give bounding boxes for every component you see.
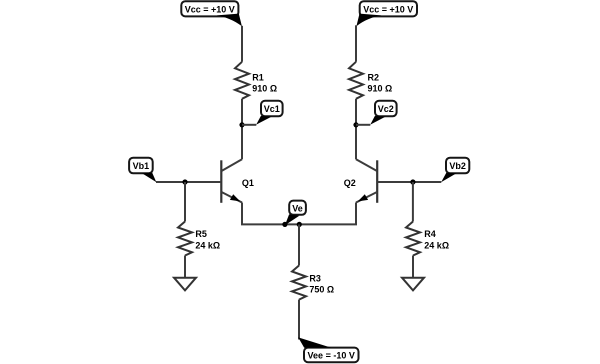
wire Vc1 stub [242, 124, 256, 126]
svg-text:Vb1: Vb1 [133, 161, 150, 171]
label R1 910 Ω [252, 72, 277, 93]
label R2 910 Ω [368, 72, 393, 93]
label R3 750 Ω [309, 273, 334, 294]
power label Vcc left (+10 V) [181, 1, 242, 26]
wire Vb1 node to R5 [184, 182, 186, 222]
wire R4 to ground [412, 256, 414, 278]
svg-text:Vcc = +10 V: Vcc = +10 V [363, 4, 413, 14]
svg-text:Vee = -10 V: Vee = -10 V [308, 351, 355, 361]
wire Q2 base [378, 181, 442, 183]
transistor Q1 [221, 159, 242, 203]
svg-text:R1: R1 [252, 72, 264, 82]
svg-text:910 Ω: 910 Ω [368, 84, 393, 94]
label R5 24 kΩ [195, 229, 220, 250]
svg-text:Vc1: Vc1 [264, 104, 280, 114]
node R3 junction dot [297, 222, 302, 227]
svg-text:24 kΩ: 24 kΩ [424, 240, 449, 250]
wire Vcc-right to R2 top [355, 25, 357, 62]
wire rail to R3 [298, 224, 300, 265]
transistor Q2 [356, 159, 377, 203]
label R4 24 kΩ [424, 229, 449, 250]
svg-text:750 Ω: 750 Ω [309, 285, 334, 295]
node Vb2 junction dot [410, 179, 415, 184]
wire R1 bottom to Q1 collector [241, 99, 243, 160]
wire Vc2 stub [356, 124, 370, 126]
ground left [174, 278, 196, 291]
svg-text:Q2: Q2 [344, 178, 356, 188]
resistor R3 [292, 266, 306, 300]
wire Q2 emitter down [355, 203, 357, 225]
svg-text:R2: R2 [368, 72, 380, 82]
node label Vb2 [441, 158, 469, 182]
resistor R5 [178, 222, 192, 256]
wire emitter rail [241, 223, 357, 225]
wire R2 bottom to Q2 collector [355, 99, 357, 160]
node label Vc2 [370, 101, 396, 125]
resistor R1 [235, 62, 249, 99]
wire Q1 base [156, 181, 221, 183]
node Vb1 junction dot [182, 179, 187, 184]
node Ve junction dot [282, 222, 287, 227]
wire Vcc-left to R1 top [241, 26, 243, 62]
svg-text:Vcc = +10 V: Vcc = +10 V [185, 4, 235, 14]
svg-text:R4: R4 [424, 229, 436, 239]
svg-text:910 Ω: 910 Ω [252, 84, 277, 94]
node label Vc1 [256, 101, 282, 125]
svg-text:24 kΩ: 24 kΩ [195, 240, 220, 250]
power label Vcc right (+10 V) [356, 1, 417, 26]
node Vc1 junction dot [239, 122, 244, 127]
svg-text:Vb2: Vb2 [449, 161, 466, 171]
node Vc2 junction dot [353, 122, 358, 127]
svg-text:R5: R5 [195, 229, 207, 239]
node label Vb1 [129, 158, 156, 182]
resistor R4 [406, 222, 420, 256]
svg-text:Vc2: Vc2 [378, 104, 394, 114]
wire R3 to Vee [298, 300, 300, 340]
svg-text:Ve: Ve [292, 203, 303, 213]
svg-text:Q1: Q1 [242, 178, 254, 188]
node label Ve [285, 201, 306, 226]
wire R5 to ground [184, 256, 186, 278]
ground right [402, 278, 424, 291]
wire Q1 emitter down [241, 203, 243, 225]
wire Vb2 node to R4 [412, 182, 414, 222]
resistor R2 [349, 62, 363, 99]
svg-text:R3: R3 [309, 273, 321, 283]
power label Vee (-10 V) [298, 337, 358, 362]
